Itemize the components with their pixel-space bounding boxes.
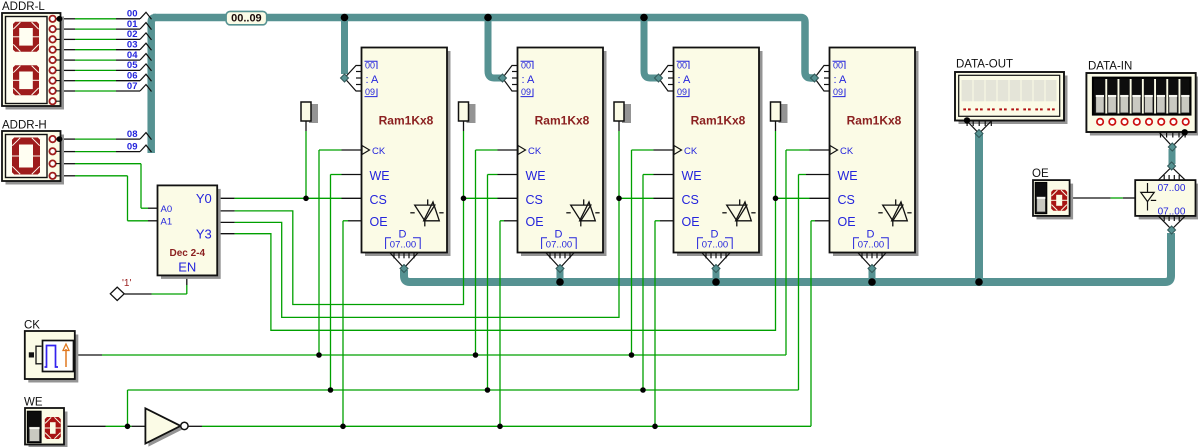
svg-text:CK: CK [372, 146, 386, 157]
wire U3 WE riser [654, 174, 674, 176]
data bus branch U4 D [869, 269, 876, 282]
wire ADDR-L pin 4 to bus tap 04 [61, 59, 75, 61]
svg-text:08: 08 [127, 129, 138, 140]
bus branch to U2 A [488, 19, 502, 78]
wire ADDR-L pin 5 to bus tap 05 [61, 69, 75, 71]
wire U4 OE riser [815, 220, 830, 222]
bus range label 00..09 [226, 11, 267, 24]
svg-text:09: 09 [833, 87, 843, 97]
wire ADDR-L pin 6 to bus tap 06 [61, 80, 75, 82]
svg-text:A1: A1 [161, 217, 173, 228]
bus ADDR 00..09 horizontal segment [153, 18, 814, 79]
wire decoder EN to constant '1' [186, 275, 188, 285]
U1 clock pin marker [362, 146, 370, 155]
svg-text:03: 03 [127, 40, 138, 51]
RAM U3 Ram1Kx8 [677, 51, 763, 256]
wire U1 CK riser [342, 149, 362, 151]
svg-text:OE: OE [838, 215, 856, 229]
svg-text:09: 09 [677, 87, 687, 97]
data bus branch U3 D [713, 269, 720, 282]
wire pull-up R2 to CS node [463, 121, 465, 131]
U1 tristate icon [415, 205, 435, 221]
svg-text:OE: OE [526, 215, 544, 229]
svg-text:WE: WE [24, 397, 43, 409]
wire U3 CK riser [654, 149, 674, 151]
U2 tristate icon [571, 205, 591, 221]
svg-text:D: D [555, 228, 563, 240]
bus branch to U1 A [341, 19, 348, 74]
display ADDR-L [6, 17, 65, 110]
bus branch to U3 A [644, 19, 658, 78]
wire U1 WE riser [342, 174, 362, 176]
svg-text:'1': '1' [122, 278, 131, 289]
DATA-IN bus connector [1159, 132, 1186, 146]
wire ADDR-H pin4 to decoder A1 [61, 175, 75, 177]
wire NOT-WE net [188, 425, 202, 427]
junction dots WE net [328, 387, 334, 393]
wire ADDR-H pin3 to decoder A0 [61, 163, 75, 165]
data bus D 07..00 bottom horizontal [404, 233, 1171, 282]
U4 D output bus connector [858, 253, 886, 268]
pull-up resistor R2 [467, 104, 476, 123]
wire U4 CK riser [810, 149, 830, 151]
svg-text:OE: OE [682, 215, 700, 229]
node dot DATA-IN pin7 [1182, 129, 1188, 135]
U1 A input bus connector [345, 66, 362, 79]
svg-text:D: D [399, 228, 407, 240]
wire U2 WE riser [498, 174, 518, 176]
svg-text:07..00: 07..00 [390, 240, 416, 251]
wire ADDR-H pin 0 to bus tap 08 [61, 138, 75, 140]
U3 clock pin marker [674, 146, 682, 155]
wire pull-up R4 to CS node [775, 121, 777, 131]
svg-text:EN: EN [178, 259, 196, 274]
wire ADDR-L pin 3 to bus tap 03 [61, 49, 75, 51]
wire CK net [75, 354, 102, 356]
wire U2 OE riser [504, 220, 518, 222]
pull-up resistor R3 [622, 104, 631, 123]
svg-text:DATA-OUT: DATA-OUT [956, 58, 1013, 70]
node dot DATA-OUT pin0 [964, 117, 970, 123]
U4 A input bus connector [815, 66, 830, 79]
svg-text:Ram1Kx8: Ram1Kx8 [691, 114, 746, 128]
svg-text:WE: WE [838, 169, 858, 183]
svg-text:07..00: 07..00 [1158, 183, 1186, 194]
decoder U5 Dec 2-4 [161, 189, 221, 279]
data bus branch U2 D [557, 269, 564, 282]
svg-text:: A: : A [678, 74, 692, 86]
svg-text:WE: WE [370, 169, 390, 183]
inverter NOT gate [148, 411, 183, 446]
svg-text:07: 07 [127, 81, 138, 92]
wire U3 OE riser [660, 220, 674, 222]
U4 tristate icon [883, 205, 903, 221]
data bus branch DATA-OUT [975, 134, 983, 282]
constant '1' [110, 287, 124, 300]
svg-text:09: 09 [521, 87, 531, 97]
svg-text:CS: CS [370, 193, 387, 207]
node dot ADDR-H pin0 [57, 136, 63, 142]
display DATA-OUT [959, 76, 1068, 125]
U2 A input bus connector [503, 66, 518, 79]
svg-text:A0: A0 [161, 204, 173, 215]
wire decoder Y3 to U4 CS [235, 198, 776, 330]
svg-text:00: 00 [521, 61, 531, 71]
wire WE switch to inverter [64, 425, 106, 427]
wire pull-up R3 to CS node [618, 121, 620, 131]
driver U6 tristate buffer [1139, 184, 1198, 220]
display DATA-IN dip switches [1090, 77, 1198, 136]
junction dots on address bus [341, 14, 349, 22]
U2 clock pin marker [518, 146, 526, 155]
wire WE net [127, 390, 129, 426]
svg-text:07..00: 07..00 [546, 240, 572, 251]
U3 tristate icon [727, 205, 747, 221]
svg-text:Y3: Y3 [196, 227, 212, 242]
svg-text:: A: : A [834, 74, 848, 86]
svg-text:00: 00 [365, 61, 375, 71]
wire OE switch to driver [1070, 197, 1111, 199]
wire decoder Y0 to U1 CS [217, 197, 234, 199]
svg-text:CK: CK [24, 319, 40, 331]
switch OE [1037, 184, 1074, 220]
wire ADDR-L pin 2 to bus tap 02 [61, 38, 75, 40]
svg-text:OE: OE [370, 215, 388, 229]
driver bottom bus connector [1159, 216, 1185, 229]
display ADDR-H [6, 135, 65, 185]
svg-text:Ram1Kx8: Ram1Kx8 [379, 114, 434, 128]
wire pull-up R1 to CS node [305, 121, 307, 131]
junction dots on data bus [556, 278, 564, 286]
node dot ADDR-L pin0 [57, 16, 63, 22]
U4 clock pin marker [830, 146, 838, 155]
svg-text:Ram1Kx8: Ram1Kx8 [535, 114, 590, 128]
svg-text:Dec 2-4: Dec 2-4 [170, 248, 206, 259]
switch WE [29, 412, 68, 447]
U3 D output bus connector [702, 253, 730, 268]
svg-text:00: 00 [677, 61, 687, 71]
svg-text:CK: CK [528, 146, 542, 157]
svg-text:CS: CS [838, 193, 855, 207]
svg-text:: A: : A [366, 74, 380, 86]
U2 D output bus connector [546, 253, 574, 268]
pull-up resistor R1 [309, 104, 318, 123]
RAM U2 Ram1Kx8 [521, 51, 607, 256]
wire ADDR-H pin 1 to bus tap 09 [61, 151, 75, 153]
pull-up resistor R4 [779, 104, 788, 123]
svg-text:CS: CS [682, 193, 699, 207]
wire decoder Y1 to U2 CS [235, 198, 464, 304]
driver top bus connector [1159, 167, 1185, 180]
U1 D output bus connector [390, 253, 418, 268]
junction dots CS nets [303, 196, 309, 202]
svg-text:ADDR-L: ADDR-L [2, 1, 45, 13]
svg-text:D: D [711, 228, 719, 240]
wire ADDR-L pin 0 to bus tap 00 [61, 18, 75, 20]
svg-text:07..00: 07..00 [858, 240, 884, 251]
svg-text:07..00: 07..00 [1158, 207, 1186, 218]
svg-text:Ram1Kx8: Ram1Kx8 [847, 114, 902, 128]
svg-text:ADDR-H: ADDR-H [2, 120, 47, 132]
svg-text:CK: CK [840, 146, 854, 157]
RAM U1 Ram1Kx8 [365, 51, 451, 256]
bus ADDR 00..09 vertical segment [151, 18, 156, 154]
svg-text:DATA-IN: DATA-IN [1088, 60, 1132, 72]
svg-text:00..09: 00..09 [231, 13, 262, 25]
svg-text:CK: CK [684, 146, 698, 157]
junction dots CK net [316, 352, 322, 358]
svg-text:00: 00 [833, 61, 843, 71]
junction dots NOT-WE net [340, 424, 346, 430]
svg-text:D: D [867, 228, 875, 240]
svg-text:09: 09 [365, 87, 375, 97]
RAM U4 Ram1Kx8 [833, 51, 919, 256]
svg-text:: A: : A [522, 74, 536, 86]
svg-text:07..00: 07..00 [702, 240, 728, 251]
wire U4 WE riser [806, 174, 830, 176]
svg-text:Y0: Y0 [196, 191, 212, 206]
wire ADDR-L pin 7 to bus tap 07 [61, 90, 75, 92]
clock source CK [28, 335, 78, 383]
svg-text:OE: OE [1032, 168, 1049, 180]
svg-text:09: 09 [127, 141, 138, 152]
U3 A input bus connector [659, 66, 674, 79]
wire U1 OE riser [348, 220, 362, 222]
DATA-OUT bus connector [967, 121, 992, 134]
svg-text:CS: CS [526, 193, 543, 207]
wire U2 CK riser [498, 149, 518, 151]
wire ADDR-L pin 1 to bus tap 01 [61, 28, 75, 30]
svg-text:WE: WE [682, 169, 702, 183]
data bus DATA-IN to driver [1169, 149, 1176, 164]
wire decoder Y2 to U3 CS [235, 198, 619, 317]
svg-text:WE: WE [526, 169, 546, 183]
